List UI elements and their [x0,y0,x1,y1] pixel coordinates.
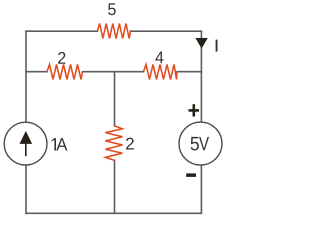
voltage source V1 circle [179,122,222,165]
current arrow I (branch current, top right) [195,38,207,49]
resistor R2 (2 ohm, middle-left) [47,64,83,79]
resistor R4 (4 ohm, middle-right) [144,64,178,79]
wire bottom horizontal [26,212,201,214]
wire right vertical upper [200,31,202,122]
value label 2 of R2 [58,52,65,64]
wire middle horizontal segment B [83,71,144,73]
label 5V [191,137,209,151]
wire middle vertical lower [114,160,116,213]
value label 2 of R3 [126,138,134,150]
wire top horizontal left [26,30,97,32]
label 1A [52,138,68,150]
minus sign of V1 [186,173,196,177]
plus sign of V1 [189,104,200,116]
resistor R3 (2 ohm, middle vertical) [105,126,122,160]
label I [216,40,218,52]
value label 5 of R5 [108,3,116,15]
wire middle horizontal segment A [26,71,47,73]
wire left vertical upper [25,31,27,122]
wire middle vertical upper [114,72,116,126]
value label 4 of R4 [155,52,163,64]
wire top horizontal right [130,30,201,32]
wire middle horizontal segment C [177,71,201,73]
current source I1 arrow [20,131,33,156]
resistor R5 (5 ohm, top) [97,24,130,39]
wire right vertical lower [200,165,202,213]
current source I1 circle [4,122,47,165]
wire left vertical lower [25,165,27,213]
